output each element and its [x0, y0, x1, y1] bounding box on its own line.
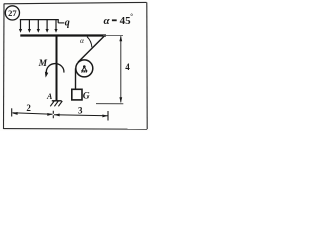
beam (horizontal) [20, 34, 106, 36]
load arrow 4 [46, 20, 48, 30]
problem number circle 27 [5, 6, 19, 20]
load arrow 5 [55, 20, 57, 30]
svg-text:27: 27 [8, 8, 17, 18]
support A hatching [50, 101, 62, 106]
angle arc at beam [87, 37, 92, 48]
frame border left [3, 4, 6, 130]
svg-text:2: 2 [26, 103, 31, 113]
rope diagonal (45 deg) [78, 36, 104, 62]
frame border right [146, 2, 148, 129]
support A base bar [52, 100, 62, 102]
dim bottom: middle tick [52, 111, 54, 119]
svg-text:°: ° [130, 12, 133, 20]
load arrow 2 [28, 20, 30, 30]
moment M arc [46, 64, 64, 73]
weight G square [72, 89, 82, 100]
load arrow 1 [19, 20, 58, 33]
frame border top [4, 2, 147, 3]
svg-text:A: A [46, 92, 53, 101]
svg-text:G: G [83, 92, 90, 102]
dim bottom line segment 3 [54, 115, 108, 116]
svg-text:4: 4 [125, 62, 130, 72]
dim bottom: left tick [11, 108, 13, 116]
svg-text:3: 3 [78, 106, 83, 116]
frame border bottom [4, 128, 148, 131]
column (vertical member) [56, 35, 58, 101]
dim bottom: right tick [107, 111, 109, 121]
dim bottom line segment 2 [13, 113, 53, 114]
load arrow 3 [37, 20, 39, 30]
pulley axle symbol [81, 65, 87, 72]
svg-text:q: q [65, 17, 70, 28]
dim right: vertical line 4 [120, 36, 122, 102]
distributed load top line [20, 20, 58, 23]
dim right: bottom extension line [96, 103, 123, 105]
leader dash to q [58, 22, 64, 24]
svg-text:M: M [38, 59, 48, 69]
svg-text:α: α [80, 36, 85, 45]
dim right: top extension line [103, 34, 123, 36]
pulley circle [76, 60, 93, 77]
svg-text:α: α [104, 15, 111, 27]
rope vertical from pulley to weight [75, 68, 77, 89]
